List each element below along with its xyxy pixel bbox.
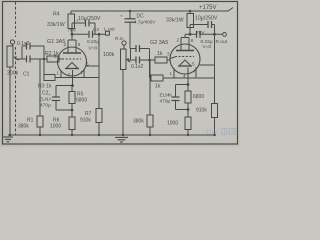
resistor R3' 1k (right, lower) xyxy=(150,60,215,90)
svg-text:R2 1k: R2 1k xyxy=(45,51,59,57)
svg-text:1000: 1000 xyxy=(50,124,61,130)
filament xyxy=(180,60,191,66)
svg-text:ELNA: ELNA xyxy=(160,93,173,99)
svg-text:1k: 1k xyxy=(155,84,161,90)
resistor R7 910k (left bleeder) xyxy=(80,109,102,136)
svg-text:70V: 70V xyxy=(68,27,77,33)
capacitor 10u/250V (right output electrolytic) xyxy=(190,16,218,35)
svg-text:380k: 380k xyxy=(133,119,144,125)
resistor R1 380k (grid leak, left) xyxy=(18,60,43,136)
resistor R7' 910k (right bleeder) xyxy=(196,104,218,136)
svg-text:300k: 300k xyxy=(7,71,19,77)
svg-text:380k: 380k xyxy=(18,124,29,130)
resistor R4' 33k/1W (right plate load) xyxy=(166,11,194,34)
svg-text:+: + xyxy=(48,92,51,97)
svg-text:6: 6 xyxy=(78,42,81,47)
ground bus rail xyxy=(8,134,216,136)
svg-text:R.in: R.in xyxy=(115,36,124,42)
svg-text:1k: 1k xyxy=(157,51,163,57)
capacitor C4 0.22u (right output film) xyxy=(185,31,223,50)
svg-text:4: 4 xyxy=(183,74,186,79)
node: below R5' xyxy=(187,108,190,111)
svg-text:470μ: 470μ xyxy=(160,99,171,105)
wire: output bleeder line (right) xyxy=(214,34,216,103)
node: cathode junction right xyxy=(187,83,190,86)
capacitor C3 0.22u (left output film) xyxy=(72,27,106,52)
svg-text:C2: C2 xyxy=(42,91,49,97)
pin leads xyxy=(173,68,175,78)
svg-text:1000: 1000 xyxy=(167,121,178,127)
svg-text:R.out: R.out xyxy=(216,39,228,45)
svg-text:910k: 910k xyxy=(196,108,207,114)
pin leads xyxy=(60,71,62,78)
node 70V right xyxy=(189,33,192,36)
svg-text:470μ: 470μ xyxy=(40,103,51,109)
svg-text:0.1x2: 0.1x2 xyxy=(17,41,29,47)
capacitor DC 4.7u/400V (rail decoupling) xyxy=(120,11,156,49)
svg-text:+175V: +175V xyxy=(199,5,217,11)
svg-text:5: 5 xyxy=(86,62,89,67)
svg-text:C1: C1 xyxy=(23,72,30,78)
svg-text:2: 2 xyxy=(64,42,67,47)
svg-text:2: 2 xyxy=(177,38,180,43)
capacitor C2 ELNA 470u (left) xyxy=(39,86,60,111)
plate leads xyxy=(180,38,182,51)
resistor R3 1k (left, lower) xyxy=(38,59,99,90)
svg-text:3: 3 xyxy=(54,54,57,59)
resistor R5 6800 (left cathode) xyxy=(69,86,87,111)
svg-text:DIY: DIY xyxy=(206,128,219,137)
svg-text:R4: R4 xyxy=(53,12,60,18)
svg-text:33k/1W: 33k/1W xyxy=(166,18,184,24)
svg-text:1: 1 xyxy=(57,71,60,76)
svg-text:R7: R7 xyxy=(85,111,92,117)
potentiometer 100k (right volume) xyxy=(103,45,131,135)
plate bar xyxy=(63,52,81,54)
resistor R5' 6800 (right cathode) xyxy=(185,85,204,110)
filament xyxy=(67,63,78,69)
svg-text:ELNA: ELNA xyxy=(39,97,52,103)
input shield (dashed) L channel xyxy=(15,2,17,135)
ground (left end) xyxy=(3,137,13,142)
svg-text:7: 7 xyxy=(194,69,197,74)
terminal L.out xyxy=(104,27,115,36)
grid (dashed) xyxy=(175,56,194,58)
svg-text:L.out: L.out xyxy=(104,27,115,33)
watermark xyxy=(206,128,236,137)
wire: output bleeder line (left) xyxy=(98,34,100,108)
svg-text:V=0: V=0 xyxy=(89,46,98,52)
plate leads xyxy=(67,40,69,53)
resistor R2 1k (grid stopper, left) xyxy=(45,51,62,62)
svg-text:70V: 70V xyxy=(196,30,205,36)
capacitor 10u/250V (left output electrolytic) xyxy=(72,16,101,34)
node: below R5 xyxy=(71,109,74,112)
svg-text:0.22μ: 0.22μ xyxy=(87,39,99,45)
terminal L.in xyxy=(10,40,14,44)
tube G2 3A5 xyxy=(150,34,215,84)
resistor R2' 1k (right grid stopper) xyxy=(155,51,170,63)
svg-text:C3: C3 xyxy=(93,27,99,32)
svg-text:5: 5 xyxy=(192,62,195,67)
ground (middle) xyxy=(115,137,128,142)
svg-text:7: 7 xyxy=(81,70,84,75)
node: grid junction left xyxy=(43,58,46,61)
svg-text:6800: 6800 xyxy=(76,98,87,104)
svg-text:+: + xyxy=(120,14,123,19)
svg-text:6: 6 xyxy=(191,38,194,43)
svg-text:10μ/250V: 10μ/250V xyxy=(195,16,218,22)
resistor R1' 380k (right grid leak) xyxy=(133,61,153,136)
terminal R.out xyxy=(216,33,228,46)
svg-text:V=0: V=0 xyxy=(203,44,212,50)
capacitor C1' 0.1x2 (right) xyxy=(131,45,156,70)
node: grid junction right xyxy=(148,59,151,62)
svg-text:4: 4 xyxy=(68,72,71,77)
svg-text:3: 3 xyxy=(167,52,170,57)
potentiometer 300k (left volume) xyxy=(7,44,22,135)
resistor R6' 1000 (right) xyxy=(167,110,191,136)
node: cathode junction left xyxy=(71,84,74,87)
svg-text:6800: 6800 xyxy=(193,94,204,100)
capacitor C1 0.1x2 (left, two parallel) xyxy=(17,41,47,78)
svg-text:4.7μ/400V: 4.7μ/400V xyxy=(134,20,156,25)
svg-text:100k: 100k xyxy=(103,52,115,58)
svg-text:0.1x2: 0.1x2 xyxy=(131,64,143,70)
node 70V (left plate) xyxy=(71,33,74,36)
tube G1 3A5 xyxy=(47,34,99,85)
plate bar xyxy=(176,50,194,52)
svg-text:910k: 910k xyxy=(80,118,91,124)
svg-text:1: 1 xyxy=(170,71,173,76)
resistor R6 1000 (left) xyxy=(50,110,75,135)
svg-text:G2 3A5: G2 3A5 xyxy=(150,40,168,46)
capacitor C2' ELNA 470u (right) xyxy=(160,85,180,110)
svg-text:33k/1W: 33k/1W xyxy=(47,22,65,28)
+175V supply rail xyxy=(71,5,233,11)
terminal R.in xyxy=(115,36,126,45)
grid (dashed) xyxy=(62,58,81,60)
resistor R4 33k/1W (plate load, left) xyxy=(47,11,75,34)
svg-text:10μ/250V: 10μ/250V xyxy=(78,16,101,22)
